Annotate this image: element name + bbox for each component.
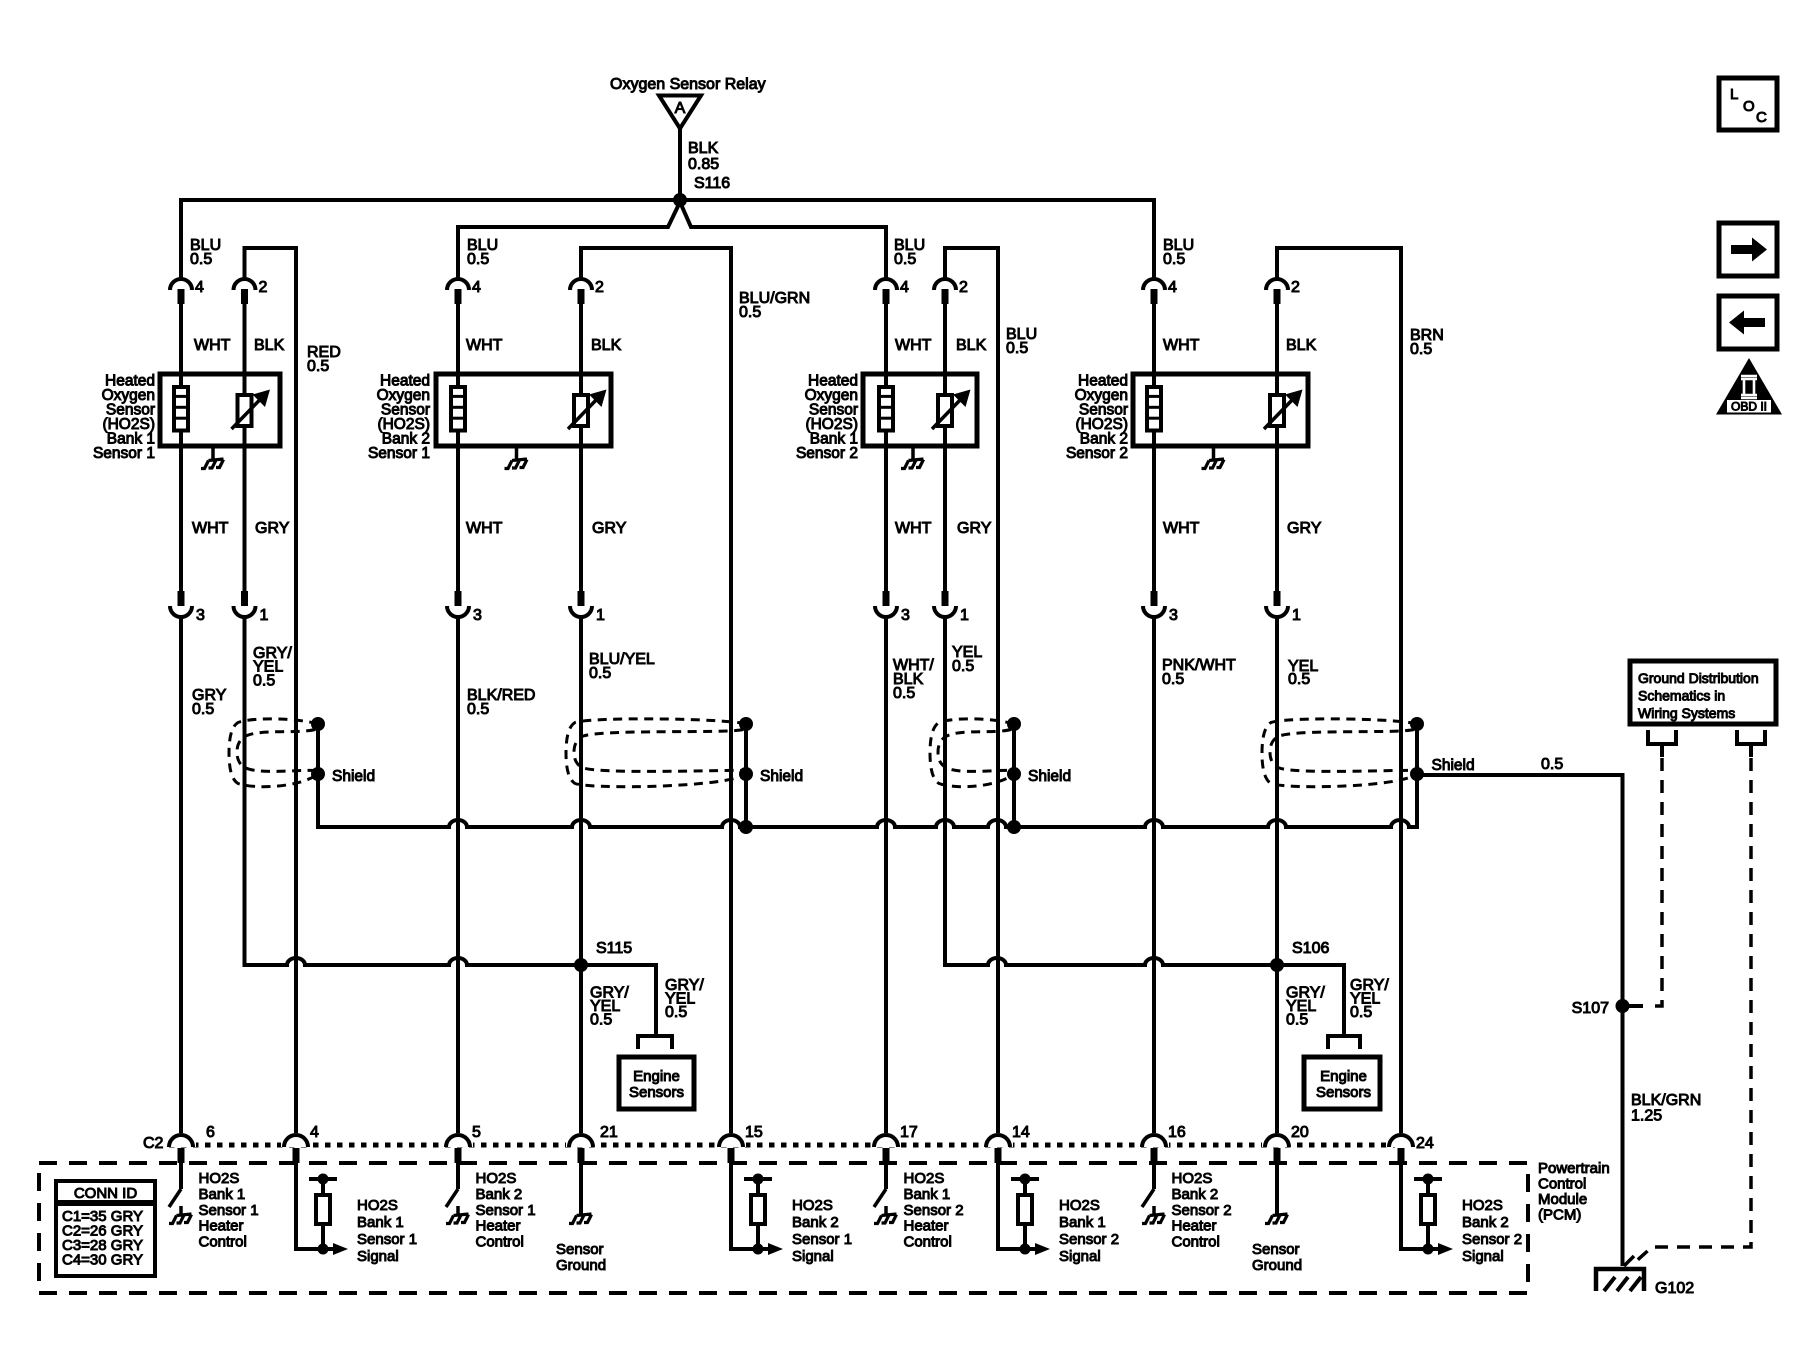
ground G102: [1596, 1256, 1694, 1297]
svg-text:1.25: 1.25: [1631, 1108, 1662, 1125]
svg-text:1: 1: [960, 607, 969, 624]
svg-text:S107: S107: [1572, 1000, 1609, 1017]
svg-text:Sensor: Sensor: [1252, 1241, 1300, 1258]
svg-text:(PCM): (PCM): [1538, 1207, 1581, 1224]
svg-text:OBD II: OBD II: [1731, 400, 1767, 414]
svg-text:GRY: GRY: [255, 520, 290, 537]
svg-text:WHT: WHT: [1163, 520, 1200, 537]
svg-text:Schematics in: Schematics in: [1638, 688, 1725, 704]
svg-text:Ground Distribution: Ground Distribution: [1638, 670, 1759, 686]
svg-text:A: A: [675, 100, 686, 117]
label HO2S B2S1 name: [368, 373, 430, 463]
sensing element (variable resistor) HO2S B1S2: [932, 390, 971, 430]
svg-text:O: O: [1743, 98, 1755, 115]
svg-text:3: 3: [1169, 607, 1178, 624]
svg-text:Sensor 2: Sensor 2: [1059, 1231, 1119, 1248]
wire BLK pin2 through box to pin 1 HO2S B1S1: [245, 304, 285, 591]
heater element HO2S B2S1: [451, 387, 465, 431]
PCM connector pin 4: [281, 1124, 319, 1163]
label WHT below box HO2S B1S2: [895, 520, 932, 537]
case ground HO2S B2S1: [505, 446, 528, 469]
heater control driver + ground at pin above 1154: [1142, 1163, 1165, 1224]
svg-text:Bank 2: Bank 2: [792, 1214, 839, 1231]
heater element HO2S B1S1: [174, 387, 188, 431]
svg-text:1: 1: [1292, 607, 1301, 624]
PCM connector pin 14: [983, 1124, 1030, 1163]
svg-text:0.5: 0.5: [1288, 671, 1310, 688]
wire second rail to HO2S B2S1 and B1S2: [458, 202, 886, 279]
splice S115: [574, 940, 632, 972]
connector pin 2 HO2S B2S2: [1266, 279, 1300, 304]
heater control driver + ground at pin above 181: [169, 1163, 192, 1224]
svg-text:2: 2: [259, 279, 268, 296]
wire label GRY/YEL 0.5 at pin 20: [1286, 985, 1325, 1029]
svg-text:Shield: Shield: [332, 768, 375, 785]
case ground HO2S B2S2: [1202, 446, 1225, 469]
PCM connector pin 16: [1139, 1124, 1186, 1163]
icon arrow right: [1719, 223, 1777, 276]
label HO2S B1S2 name: [796, 373, 858, 463]
label Powertrain Control Module (PCM): [1538, 1160, 1610, 1224]
wire Shield 0.5 to S107: [1417, 756, 1623, 1266]
svg-text:Sensor: Sensor: [556, 1241, 604, 1258]
svg-text:HO2S: HO2S: [1462, 1197, 1503, 1214]
case ground HO2S B1S1: [201, 446, 224, 469]
wire BLK pin2 through box to pin 1 HO2S B2S2: [1277, 304, 1317, 591]
icon LOC box: [1719, 78, 1777, 130]
svg-text:0.5: 0.5: [307, 358, 329, 375]
PCM connector pin 17: [871, 1124, 918, 1163]
svg-text:Control: Control: [199, 1234, 247, 1251]
wire BLK pin2 through box to pin 1 HO2S B2S1: [581, 304, 622, 591]
shield B1S1: [229, 717, 375, 787]
svg-text:WHT: WHT: [466, 337, 503, 354]
wire PNK/WHT heater control B2S2 to PCM pin 16: [1152, 617, 1156, 1136]
PCM connector pin 24: [1386, 1133, 1434, 1163]
splice S107: [1572, 999, 1630, 1017]
wire YEL B1S2 low ref to S106: [945, 617, 1344, 1034]
svg-text:Signal: Signal: [1462, 1248, 1504, 1265]
off-page bracket ground distribution left: [1648, 730, 1676, 757]
svg-text:Shield: Shield: [1432, 757, 1475, 774]
svg-text:Sensor 1: Sensor 1: [792, 1231, 852, 1248]
box Engine Sensors 2: [1304, 1057, 1380, 1109]
svg-text:C4=30 GRY: C4=30 GRY: [62, 1252, 143, 1269]
svg-text:0.5: 0.5: [952, 658, 974, 675]
svg-text:HO2S: HO2S: [357, 1197, 398, 1214]
svg-text:Sensor 2: Sensor 2: [1462, 1231, 1522, 1248]
sensing element (variable resistor) HO2S B2S1: [568, 390, 607, 430]
svg-text:0.5: 0.5: [253, 673, 275, 690]
wire WHT/BLK heater control B1S2 to PCM pin 17: [884, 617, 888, 1136]
shield B1S2: [930, 717, 1071, 787]
off-page bracket engine sensors 1: [638, 1036, 672, 1049]
wire BLK 0.85 from relay to S116: [680, 129, 719, 201]
svg-text:0.5: 0.5: [467, 701, 489, 718]
signal input resistor + arrow at pin above 998: [998, 1163, 1050, 1255]
wire label below pin 3 HO2S B1S1: [192, 687, 227, 718]
wire WHT pin4 through box to pin 3 HO2S B2S1: [458, 304, 503, 591]
svg-text:Sensor 2: Sensor 2: [1066, 445, 1128, 462]
svg-text:4: 4: [310, 1124, 319, 1141]
svg-text:L: L: [1730, 86, 1738, 103]
CONN ID table: [56, 1181, 155, 1276]
PCM dashed outline: [39, 1163, 1528, 1293]
label GRY below box HO2S B2S2: [1287, 520, 1322, 537]
svg-text:S115: S115: [596, 940, 632, 957]
relay pin A triangle: [659, 96, 701, 129]
svg-text:3: 3: [473, 607, 482, 624]
svg-text:15: 15: [745, 1124, 763, 1141]
svg-text:0.85: 0.85: [688, 156, 719, 173]
PCM connector dotted line: [169, 1143, 1395, 1148]
svg-text:14: 14: [1012, 1124, 1030, 1141]
component box HO2S B1S1: [160, 374, 280, 446]
wire BLK pin2 through box to pin 1 HO2S B1S2: [945, 304, 987, 591]
label GRY below box HO2S B1S1: [255, 520, 290, 537]
svg-text:WHT: WHT: [466, 520, 503, 537]
heater control driver + ground at pin above 458: [446, 1163, 469, 1224]
svg-text:Heater: Heater: [1172, 1218, 1217, 1235]
label Bank 2 Sensor 2 signal: [1462, 1197, 1522, 1265]
component box HO2S B2S2: [1133, 374, 1308, 446]
svg-text:Wiring Systems: Wiring Systems: [1638, 705, 1735, 721]
label WHT below box HO2S B2S1: [466, 520, 503, 537]
wire label BLK/GRN 1.25: [1631, 1092, 1701, 1125]
svg-text:21: 21: [600, 1124, 618, 1141]
label sensor ground: [1252, 1241, 1302, 1274]
connector pin 3 HO2S B2S2: [1143, 591, 1178, 624]
svg-text:GRY: GRY: [1287, 520, 1322, 537]
svg-text:Ground: Ground: [556, 1257, 606, 1274]
svg-text:Control: Control: [476, 1234, 524, 1251]
label WHT below box HO2S B2S2: [1163, 520, 1200, 537]
svg-text:0.5: 0.5: [1410, 341, 1432, 358]
connector pin 1 HO2S B2S2: [1266, 591, 1301, 624]
label Bank 1 Sensor 1 heater control: [199, 1170, 259, 1251]
wire label below pin 3 HO2S B2S2: [1162, 657, 1236, 688]
svg-text:Bank 2: Bank 2: [1172, 1186, 1219, 1203]
svg-text:3: 3: [196, 607, 205, 624]
svg-text:6: 6: [206, 1124, 215, 1141]
connector pin 1 HO2S B1S1: [234, 591, 269, 624]
svg-text:BLK: BLK: [956, 337, 987, 354]
svg-text:4: 4: [195, 279, 204, 296]
wire label below pin 1 HO2S B1S2: [952, 644, 982, 675]
shield B2S1: [566, 717, 803, 787]
label C2: [143, 1135, 164, 1152]
svg-text:0.5: 0.5: [1286, 1012, 1308, 1029]
wire label GRY/YEL 0.5 to engine sensors 1: [665, 977, 704, 1021]
shield B2S2: [1262, 717, 1475, 787]
svg-text:Sensor 1: Sensor 1: [199, 1202, 259, 1219]
connector pin 1 HO2S B2S1: [570, 591, 605, 624]
connector pin 4 HO2S B2S2: [1143, 279, 1177, 304]
svg-text:Signal: Signal: [792, 1248, 834, 1265]
svg-text:BLK: BLK: [1286, 337, 1317, 354]
svg-text:2: 2: [595, 279, 604, 296]
connector pin 2 HO2S B2S1: [570, 279, 604, 304]
connector pin 1 HO2S B1S2: [934, 591, 969, 624]
svg-text:HO2S: HO2S: [199, 1170, 240, 1187]
dashed wire to G102: [1633, 758, 1751, 1264]
svg-text:0.5: 0.5: [894, 251, 916, 268]
PCM connector pin 15: [716, 1124, 763, 1163]
connector pin 3 HO2S B1S1: [170, 591, 205, 624]
svg-text:Bank 1: Bank 1: [199, 1186, 246, 1203]
svg-text:5: 5: [472, 1124, 481, 1141]
svg-text:Sensors: Sensors: [629, 1084, 684, 1101]
connector pin 2 HO2S B1S1: [234, 279, 268, 304]
sensing element (variable resistor) HO2S B1S1: [232, 390, 271, 430]
sensor ground at pin above 581: [569, 1163, 592, 1224]
svg-text:C: C: [1756, 109, 1767, 126]
wire BLU 0.5 label HO2S B1S1: [190, 237, 221, 268]
svg-text:HO2S: HO2S: [1059, 1197, 1100, 1214]
label Bank 2 Sensor 1 heater control: [476, 1170, 536, 1251]
svg-text:GRY: GRY: [957, 520, 992, 537]
wire YEL low ref B2S2 to S106 and PCM pin 20: [1275, 617, 1279, 1136]
signal input resistor + arrow at pin above 1401: [1401, 1163, 1453, 1255]
svg-text:CONN ID: CONN ID: [74, 1185, 138, 1202]
svg-text:Bank 1: Bank 1: [904, 1186, 951, 1203]
signal input resistor + arrow at pin above 731: [731, 1163, 783, 1255]
svg-text:0.5: 0.5: [1350, 1004, 1372, 1021]
wire label GRY/YEL 0.5 to engine sensors 2: [1350, 977, 1389, 1021]
wire signal bypass from pin 2 (BRN 0.5) HO2S B2S2: [1277, 248, 1444, 1136]
PCM connector pin 6: [166, 1124, 215, 1163]
svg-text:Control: Control: [1172, 1234, 1220, 1251]
svg-text:0.5: 0.5: [590, 1012, 612, 1029]
svg-text:Bank 2: Bank 2: [476, 1186, 523, 1203]
wire BLU 0.5 label HO2S B1S2: [894, 237, 925, 268]
svg-text:G102: G102: [1655, 1280, 1694, 1297]
PCM connector pin 5: [443, 1124, 481, 1163]
svg-text:BLK: BLK: [591, 337, 622, 354]
svg-text:1: 1: [260, 607, 269, 624]
PCM connector pin 20: [1262, 1124, 1309, 1163]
wire WHT pin4 through box to pin 3 HO2S B1S1: [181, 304, 231, 591]
svg-text:0.5: 0.5: [665, 1004, 687, 1021]
component box HO2S B2S1: [436, 374, 611, 446]
wire label below pin 1 HO2S B1S1: [253, 645, 292, 690]
svg-text:1: 1: [596, 607, 605, 624]
wire signal bypass from pin 2 (BLU/GRN 0.5) HO2S B2S1: [581, 248, 810, 1136]
svg-text:WHT: WHT: [194, 337, 231, 354]
off-page bracket ground distribution right: [1737, 730, 1765, 757]
connector pin 3 HO2S B1S2: [875, 591, 910, 624]
svg-text:WHT: WHT: [895, 520, 932, 537]
svg-text:2: 2: [959, 279, 968, 296]
svg-text:0.5: 0.5: [739, 304, 761, 321]
svg-text:2: 2: [1291, 279, 1300, 296]
wire label GRY/YEL 0.5 at pin 21: [590, 985, 629, 1029]
svg-text:Sensor 1: Sensor 1: [476, 1202, 536, 1219]
svg-text:Heater: Heater: [199, 1218, 244, 1235]
icon arrow left: [1719, 296, 1777, 349]
svg-text:Signal: Signal: [357, 1248, 399, 1265]
wire BLK/RED heater control B2S1 to PCM pin 5: [456, 617, 460, 1136]
svg-text:HO2S: HO2S: [476, 1170, 517, 1187]
label Bank 1 Sensor 2 heater control: [904, 1170, 964, 1251]
label Oxygen Sensor Relay: [610, 76, 766, 93]
svg-text:Module: Module: [1538, 1191, 1587, 1208]
svg-text:Sensors: Sensors: [1316, 1084, 1371, 1101]
wire BLU 0.5 label HO2S B2S1: [467, 237, 498, 268]
splice S116: [673, 175, 730, 207]
wire label below pin 1 HO2S B2S1: [589, 651, 655, 682]
wire top rail to HO2S B1S1 and B2S2: [181, 200, 1154, 279]
svg-text:4: 4: [1168, 279, 1177, 296]
svg-text:0.5: 0.5: [893, 685, 915, 702]
svg-text:4: 4: [472, 279, 481, 296]
svg-text:3: 3: [901, 607, 910, 624]
wire label below pin 3 HO2S B1S2: [893, 657, 934, 702]
svg-text:HO2S: HO2S: [904, 1170, 945, 1187]
svg-text:WHT: WHT: [192, 520, 229, 537]
svg-text:Sensor 1: Sensor 1: [357, 1231, 417, 1248]
svg-text:Ground: Ground: [1252, 1257, 1302, 1274]
sensor ground at pin above 1277: [1265, 1163, 1288, 1224]
svg-text:WHT: WHT: [1163, 337, 1200, 354]
svg-text:Signal: Signal: [1059, 1248, 1101, 1265]
wire GRY 0.5 heater control B1S1 to PCM pin 6: [179, 617, 183, 1136]
label Bank 2 Sensor 2 heater control: [1172, 1170, 1232, 1251]
wire BLU 0.5 label HO2S B2S2: [1163, 237, 1194, 268]
label GRY below box HO2S B1S2: [957, 520, 992, 537]
svg-text:WHT: WHT: [895, 337, 932, 354]
svg-text:Bank 1: Bank 1: [1059, 1214, 1106, 1231]
svg-text:0.5: 0.5: [1541, 756, 1563, 773]
svg-text:BLK/GRN: BLK/GRN: [1631, 1092, 1701, 1109]
svg-text:Engine: Engine: [1320, 1068, 1367, 1085]
label WHT below box HO2S B1S1: [192, 520, 229, 537]
svg-text:Control: Control: [1538, 1176, 1586, 1193]
wire WHT pin4 through box to pin 3 HO2S B1S2: [886, 304, 932, 591]
svg-text:Control: Control: [904, 1234, 952, 1251]
label Bank 1 Sensor 1 signal: [357, 1197, 417, 1265]
svg-text:0.5: 0.5: [1006, 340, 1028, 357]
signal input resistor + arrow at pin above 296: [296, 1163, 348, 1255]
svg-text:S116: S116: [694, 175, 730, 192]
svg-text:GRY: GRY: [592, 520, 627, 537]
svg-text:0.5: 0.5: [467, 251, 489, 268]
svg-text:Sensor 1: Sensor 1: [368, 445, 430, 462]
svg-text:HO2S: HO2S: [792, 1197, 833, 1214]
label Bank 2 Sensor 1 signal: [792, 1197, 852, 1265]
component box HO2S B1S2: [863, 374, 977, 446]
svg-text:Sensor 2: Sensor 2: [1172, 1202, 1232, 1219]
connector pin 4 HO2S B1S2: [875, 279, 909, 304]
heater control driver + ground at pin above 886: [874, 1163, 897, 1224]
svg-text:Shield: Shield: [760, 768, 803, 785]
PCM connector pin 21: [566, 1124, 618, 1163]
icon OBD II triangle: [1716, 358, 1782, 415]
connector pin 2 HO2S B1S2: [934, 279, 968, 304]
svg-text:Shield: Shield: [1028, 768, 1071, 785]
svg-text:24: 24: [1416, 1135, 1434, 1152]
connector pin 4 HO2S B2S1: [447, 279, 481, 304]
svg-text:Heater: Heater: [904, 1218, 949, 1235]
svg-text:Powertrain: Powertrain: [1538, 1160, 1610, 1177]
wire GRY/YEL B1S1 low ref to S115: [245, 617, 657, 1034]
case ground HO2S B1S2: [901, 446, 924, 469]
label HO2S B2S2 name: [1066, 373, 1128, 463]
svg-text:Engine: Engine: [633, 1068, 680, 1085]
dashed wire to S107: [1623, 758, 1663, 1006]
box Ground Distribution reference: [1630, 661, 1776, 724]
svg-text:0.5: 0.5: [1163, 251, 1185, 268]
heater element HO2S B1S2: [879, 387, 893, 431]
svg-text:0.5: 0.5: [589, 665, 611, 682]
wire signal bypass from pin 2 (BLU 0.5) HO2S B1S2: [945, 248, 1037, 1136]
label HO2S B1S1 name: [93, 373, 155, 463]
svg-text:16: 16: [1168, 1124, 1186, 1141]
svg-text:Bank 1: Bank 1: [357, 1214, 404, 1231]
junction shield3 drain to bus: [1007, 774, 1021, 834]
box Engine Sensors 1: [619, 1057, 694, 1109]
splice S106: [1270, 940, 1329, 972]
svg-text:BLK: BLK: [254, 337, 285, 354]
svg-text:Bank 2: Bank 2: [1462, 1214, 1509, 1231]
heater element HO2S B2S2: [1147, 387, 1161, 431]
connector pin 3 HO2S B2S1: [447, 591, 482, 624]
svg-text:17: 17: [900, 1124, 918, 1141]
svg-text:Oxygen Sensor Relay: Oxygen Sensor Relay: [610, 76, 766, 93]
wire WHT pin4 through box to pin 3 HO2S B2S2: [1154, 304, 1200, 591]
off-page bracket engine sensors 2: [1328, 1036, 1360, 1049]
svg-text:BLK: BLK: [688, 140, 719, 157]
svg-text:0.5: 0.5: [192, 701, 214, 718]
label sensor ground: [556, 1241, 606, 1274]
svg-text:20: 20: [1291, 1124, 1309, 1141]
label GRY below box HO2S B2S1: [592, 520, 627, 537]
svg-text:4: 4: [900, 279, 909, 296]
label Bank 1 Sensor 2 signal: [1059, 1197, 1119, 1265]
svg-text:0.5: 0.5: [1162, 671, 1184, 688]
connector pin 4 HO2S B1S1: [170, 279, 204, 304]
svg-text:Sensor 2: Sensor 2: [904, 1202, 964, 1219]
wire shield drain bus: [318, 774, 1417, 827]
svg-text:Heater: Heater: [476, 1218, 521, 1235]
sensing element (variable resistor) HO2S B2S2: [1264, 390, 1303, 430]
svg-text:HO2S: HO2S: [1172, 1170, 1213, 1187]
svg-text:S106: S106: [1292, 940, 1329, 957]
wire label below pin 3 HO2S B2S1: [467, 687, 535, 718]
wire signal bypass from pin 2 (RED 0.5) HO2S B1S1: [245, 248, 341, 1136]
wire label below pin 1 HO2S B2S2: [1288, 658, 1318, 688]
svg-text:Sensor 1: Sensor 1: [93, 445, 155, 462]
wire BLU/YEL low ref B2S1 to S115 and PCM pin 21: [579, 617, 583, 1136]
junction shield2 drain to bus: [739, 774, 753, 834]
svg-text:C2: C2: [143, 1135, 164, 1152]
svg-text:Sensor 2: Sensor 2: [796, 445, 858, 462]
svg-text:0.5: 0.5: [190, 251, 212, 268]
